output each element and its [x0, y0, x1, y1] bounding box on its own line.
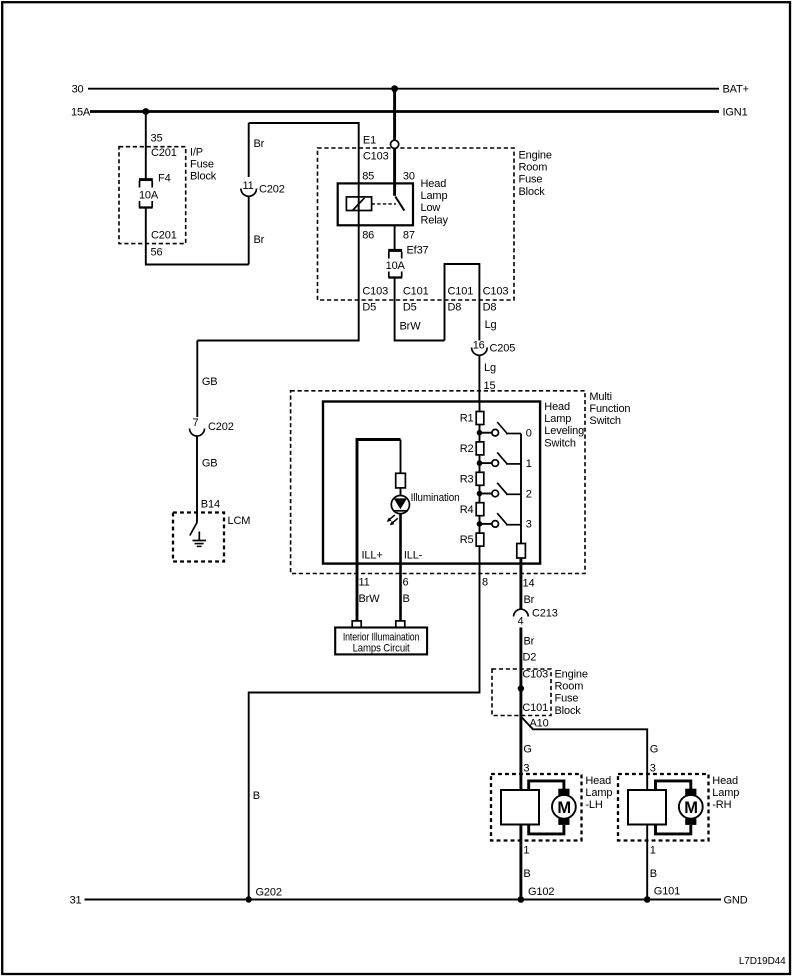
svg-text:M: M [684, 799, 698, 817]
LED: illumination lamp [387, 492, 460, 525]
svg-text:ILL-: ILL- [404, 550, 423, 562]
svg-text:10A: 10A [386, 260, 406, 272]
wire [400, 488, 402, 496]
svg-text:LCM: LCM [228, 515, 251, 527]
svg-text:R4: R4 [460, 504, 474, 516]
svg-text:Lamp: Lamp [585, 787, 612, 799]
resistor R3 [460, 472, 484, 485]
svg-text:IGN1: IGN1 [723, 107, 748, 119]
svg-text:-RH: -RH [712, 799, 731, 811]
svg-text:87: 87 [403, 230, 415, 242]
svg-text:ILL+: ILL+ [362, 550, 383, 562]
svg-text:Engine: Engine [519, 150, 552, 162]
svg-text:A10: A10 [530, 718, 549, 730]
svg-text:Br: Br [524, 636, 535, 648]
connector C213 pin 4 [514, 608, 558, 628]
labels ILL pins [359, 550, 535, 607]
Interior Illumination Lamps Circuit box [335, 621, 427, 655]
svg-text:C205: C205 [490, 343, 516, 355]
fuse F4 10A [139, 173, 177, 259]
node: tap 1 + switch contact [477, 452, 532, 470]
svg-text:30: 30 [72, 84, 84, 96]
Head Lamp Leveling Switch inner box [323, 401, 584, 564]
relay U: Head Lamp Low Relay [338, 171, 449, 242]
svg-text:Head: Head [712, 775, 738, 787]
Engine Room Fuse Block (dashed) [318, 148, 552, 300]
svg-text:R2: R2 [460, 443, 474, 455]
labels: G / 3 pins [523, 744, 658, 775]
svg-text:G: G [523, 744, 531, 756]
svg-text:0: 0 [526, 428, 532, 440]
svg-text:1: 1 [526, 458, 532, 470]
svg-text:C202: C202 [208, 421, 234, 433]
wire: Br wire C213 down through fuse block to LH lamp [521, 628, 536, 791]
resistor R5 [460, 533, 484, 546]
wire: B wire label to G202 [253, 790, 282, 899]
wire: ILL- down to pin 6 [399, 514, 402, 622]
svg-text:C103: C103 [483, 286, 509, 298]
svg-text:GND: GND [724, 895, 748, 907]
svg-text:Engine: Engine [555, 669, 588, 681]
svg-text:B: B [650, 868, 657, 880]
svg-text:GB: GB [202, 458, 218, 470]
ground: LCM internal ground [193, 532, 207, 547]
svg-text:14: 14 [523, 578, 535, 590]
svg-text:85: 85 [362, 171, 374, 183]
wire: GB wire to C202 pin 7 [197, 341, 217, 418]
svg-text:Relay: Relay [421, 214, 449, 226]
svg-text:2: 2 [526, 488, 532, 500]
node: junction dot on bus 15A at F4 feed [142, 108, 149, 115]
svg-text:Lamp: Lamp [544, 413, 571, 425]
svg-text:10A: 10A [139, 190, 159, 202]
svg-text:1: 1 [523, 845, 529, 857]
wire: resistor chain pin 15 to pin 8, down left to G202 [249, 402, 480, 900]
wire: bus 30 (BAT+) [72, 84, 749, 96]
wire: F4 bottom down, right to C202 column [146, 208, 249, 265]
svg-text:Lg: Lg [485, 319, 497, 331]
resistor: rail series element [517, 544, 526, 559]
node: G102 junction + labels [518, 845, 555, 903]
svg-text:F4: F4 [158, 173, 171, 185]
svg-text:Switch: Switch [589, 415, 621, 427]
svg-text:Lamp: Lamp [421, 190, 448, 202]
connector E1 C103 (open circle) [363, 135, 399, 163]
svg-text:Block: Block [190, 171, 217, 183]
node: tap 2 + switch contact [477, 483, 532, 501]
Multi Function Switch (dashed) [291, 391, 631, 574]
connector C202 pin 11 [241, 180, 285, 196]
svg-text:Fuse: Fuse [555, 693, 579, 705]
LCM module (dashed) [173, 513, 250, 562]
svg-text:D5: D5 [362, 302, 376, 314]
node: G101 junction + labels [644, 845, 680, 903]
svg-text:B: B [403, 593, 410, 605]
svg-text:R1: R1 [460, 413, 474, 425]
svg-text:Lamps Circuit: Lamps Circuit [353, 643, 410, 655]
svg-text:8: 8 [482, 577, 488, 589]
svg-text:B: B [253, 790, 260, 802]
svg-text:4: 4 [518, 616, 524, 628]
svg-text:Lamp: Lamp [712, 787, 739, 799]
wire: loop up C101 D8 over to C103 D8 [445, 264, 509, 341]
svg-text:3: 3 [650, 763, 656, 775]
svg-text:Br: Br [254, 138, 265, 150]
svg-text:Multi: Multi [589, 391, 611, 403]
wire: ILL+ branch and jumper [356, 438, 401, 621]
Engine Room Fuse Block 2 (dashed) [492, 669, 588, 717]
svg-text:15A: 15A [71, 107, 91, 119]
svg-text:Fuse: Fuse [519, 174, 543, 186]
wire: Ef37 out / C101 D5 BrW down right [395, 278, 445, 341]
svg-text:Low: Low [421, 202, 441, 214]
svg-text:D5: D5 [403, 302, 417, 314]
svg-text:6: 6 [403, 577, 409, 589]
svg-text:Head: Head [585, 775, 611, 787]
I/P Fuse Block (dashed) [119, 147, 217, 244]
fuse Ef37 10A [386, 245, 429, 278]
svg-text:Block: Block [519, 186, 546, 198]
svg-text:Head: Head [421, 178, 447, 190]
svg-text:I/P: I/P [190, 147, 203, 159]
svg-text:C201: C201 [151, 147, 177, 159]
svg-text:1: 1 [650, 845, 656, 857]
svg-text:Fuse: Fuse [190, 159, 214, 171]
svg-text:C101: C101 [522, 702, 548, 714]
resistor: illumination series [396, 473, 406, 488]
svg-text:Room: Room [519, 162, 548, 174]
svg-text:C201: C201 [151, 230, 177, 242]
wire: relay 86 / C103 D5 down and left to LCM branch [197, 225, 388, 340]
resistor R1 [460, 412, 484, 425]
svg-text:C101: C101 [403, 286, 429, 298]
svg-text:D2: D2 [523, 652, 537, 664]
svg-text:Block: Block [555, 705, 582, 717]
svg-text:BrW: BrW [359, 593, 381, 605]
svg-text:R3: R3 [460, 473, 474, 485]
wire: GB wire to LCM B14 [197, 436, 220, 523]
svg-text:GB: GB [202, 376, 218, 388]
node: junction inside fuse block [518, 685, 524, 691]
Head Lamp -RH unit [618, 774, 739, 841]
svg-text:56: 56 [151, 247, 163, 259]
Head Lamp -LH unit [491, 774, 612, 841]
wire: A10 branch to RH lamp [521, 717, 647, 791]
svg-text:D8: D8 [448, 302, 462, 314]
svg-text:L7D19D44: L7D19D44 [739, 956, 786, 967]
wire: 15A bus down to fuse F4 [146, 112, 177, 180]
svg-text:11: 11 [359, 577, 370, 589]
svg-text:C103: C103 [363, 151, 389, 163]
svg-text:31: 31 [70, 895, 82, 907]
wire: bus 15A (IGN1) [71, 107, 748, 119]
svg-text:11: 11 [242, 180, 253, 192]
node: tap 0 + switch contact [477, 422, 532, 440]
svg-text:Leveling: Leveling [544, 425, 584, 437]
svg-text:86: 86 [362, 230, 374, 242]
svg-text:-LH: -LH [585, 799, 602, 811]
wire: bus 31 (GND) [70, 895, 748, 907]
connector C202 pin 7 [190, 417, 234, 436]
wire: Lg wire C205 to MFS pin 15 [479, 355, 496, 402]
svg-text:Br: Br [254, 234, 265, 246]
svg-text:Function: Function [589, 403, 630, 415]
svg-text:B: B [523, 868, 530, 880]
resistor R4 [460, 503, 484, 516]
wire: switch common rail [520, 434, 522, 544]
svg-text:3: 3 [523, 763, 529, 775]
node: G202 junction [246, 896, 252, 902]
svg-text:35: 35 [151, 133, 163, 145]
wire: LH lamp pin1 to G102 [519, 825, 522, 900]
svg-text:C101: C101 [448, 286, 474, 298]
svg-text:3: 3 [526, 519, 532, 531]
svg-text:M: M [557, 799, 571, 817]
svg-text:C202: C202 [259, 184, 285, 196]
wire: Br wire up from C202 pin 11 to relay pin 85 [249, 123, 359, 265]
svg-text:16: 16 [473, 340, 485, 352]
svg-text:R5: R5 [460, 534, 474, 546]
svg-text:Br: Br [524, 594, 535, 606]
svg-text:Lg: Lg [484, 362, 496, 374]
svg-text:Switch: Switch [544, 437, 576, 449]
svg-text:30: 30 [403, 171, 415, 183]
svg-text:B14: B14 [201, 499, 220, 511]
wire: illumination branch upper [400, 440, 402, 474]
svg-text:7: 7 [193, 417, 199, 429]
switch: LCM internal switch blade [190, 523, 197, 536]
svg-text:C103: C103 [522, 669, 548, 681]
node: junction dot on bus 30 at relay feed [391, 85, 398, 92]
wire: RH lamp pin1 to G101 [646, 825, 648, 900]
svg-text:Room: Room [555, 681, 584, 693]
svg-text:E1: E1 [363, 135, 376, 147]
node: tap 3 + switch contact [477, 513, 532, 531]
svg-text:Illumination: Illumination [411, 492, 460, 504]
wire: relay 87 to fuse Ef37 [394, 225, 396, 250]
svg-text:G101: G101 [654, 886, 680, 898]
wire: rail to pin 14 [519, 558, 522, 609]
wire: thick feed bus30 to relay pin 30 [393, 89, 396, 196]
svg-text:D8: D8 [483, 302, 497, 314]
svg-text:C213: C213 [532, 608, 558, 620]
svg-text:BrW: BrW [400, 321, 422, 333]
svg-text:BAT+: BAT+ [723, 84, 749, 96]
svg-text:Head: Head [544, 401, 570, 413]
connector C205 pin 16 [472, 340, 516, 356]
resistor R2 [460, 442, 484, 455]
svg-text:G202: G202 [256, 887, 282, 899]
svg-text:Ef37: Ef37 [407, 245, 429, 257]
svg-text:C103: C103 [362, 286, 388, 298]
svg-text:G102: G102 [528, 886, 554, 898]
svg-text:G: G [650, 744, 658, 756]
